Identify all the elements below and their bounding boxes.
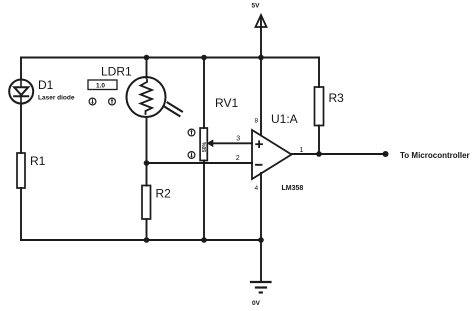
junction: top rail / 5V bbox=[258, 55, 264, 61]
svg-text:2: 2 bbox=[236, 155, 240, 162]
svg-text:R1: R1 bbox=[30, 154, 46, 168]
op-amp minus sign bbox=[256, 164, 262, 166]
svg-text:1.0: 1.0 bbox=[96, 83, 105, 90]
svg-text:3: 3 bbox=[236, 136, 240, 143]
wire: top rail bbox=[21, 57, 319, 59]
svg-text:LM358: LM358 bbox=[282, 185, 304, 192]
terminal: output to microcontroller bbox=[383, 151, 389, 157]
wire: R3 bottom to output node bbox=[318, 126, 320, 155]
wire: op-amp output to terminal bbox=[292, 153, 386, 155]
resistor R2 bbox=[142, 186, 151, 220]
wire: 5V down to op-amp positive supply bbox=[260, 16, 262, 135]
RV1 control: up button bbox=[188, 129, 195, 136]
svg-text:50%: 50% bbox=[202, 141, 208, 152]
resistor R1 bbox=[17, 153, 25, 188]
op-amp U1:A triangle bbox=[252, 130, 292, 179]
junction: divider node LDR1/R2/pin2 bbox=[144, 160, 150, 166]
op-amp plus sign bbox=[256, 141, 262, 147]
svg-text:LDR1: LDR1 bbox=[101, 65, 132, 79]
wire: inverting input (pin 2) from divider node bbox=[147, 162, 253, 164]
wire: left drop from top rail to D1 anode bbox=[20, 58, 22, 79]
svg-text:1: 1 bbox=[300, 147, 304, 154]
ground symbol bbox=[251, 282, 271, 293]
wire: bottom rail bbox=[21, 239, 261, 241]
svg-text:0V: 0V bbox=[252, 300, 261, 307]
wire: ground stem bbox=[260, 240, 262, 281]
junction: RV1 / bottom rail bbox=[201, 237, 207, 243]
wire: wiper to non-inverting input (pin 3) bbox=[212, 142, 253, 144]
LDR1 control: down arrow button bbox=[89, 98, 96, 105]
junction: output / R3 bbox=[316, 151, 322, 157]
junction: ground / bottom rail bbox=[258, 237, 264, 243]
power: 5V arrow symbol bbox=[256, 15, 267, 27]
LDR LDR1 bbox=[127, 77, 183, 117]
svg-text:R2: R2 bbox=[156, 187, 172, 201]
wire: R1 to bottom rail bbox=[20, 188, 22, 240]
wire: RV1 bottom lead to bottom rail bbox=[203, 161, 205, 241]
wire: R2 top lead bbox=[146, 163, 148, 186]
wire: LDR1 top lead bbox=[146, 58, 148, 79]
junction: top rail / RV1 bbox=[201, 55, 207, 61]
svg-text:8: 8 bbox=[255, 118, 259, 125]
svg-text:Laser diode: Laser diode bbox=[38, 95, 75, 102]
junction: top rail / LDR1 bbox=[144, 55, 150, 61]
wire: RV1 top lead from top rail bbox=[203, 58, 205, 129]
wire: op-amp negative supply to bottom rail bbox=[260, 173, 262, 240]
potentiometer RV1 wiper arrow bbox=[208, 140, 213, 146]
junction: R2 / bottom rail bbox=[144, 237, 150, 243]
resistor R3 bbox=[315, 87, 324, 126]
wire: D1 cathode to R1 bbox=[20, 104, 22, 153]
potentiometer RV1 body bbox=[200, 128, 207, 161]
svg-text:U1:A: U1:A bbox=[271, 112, 298, 126]
LDR1 control: up arrow button bbox=[109, 98, 116, 105]
wire: R2 bottom lead bbox=[146, 219, 148, 240]
svg-text:5V: 5V bbox=[252, 3, 261, 10]
svg-text:To Microcontroller: To Microcontroller bbox=[400, 151, 470, 160]
LDR1 value box bbox=[88, 80, 117, 90]
wire: top rail corner down to R3 bbox=[318, 58, 320, 88]
wire: LDR1 bottom lead to divider node bbox=[146, 117, 148, 163]
svg-text:4: 4 bbox=[255, 185, 259, 192]
svg-text:R3: R3 bbox=[329, 91, 345, 105]
laser diode D1 bbox=[9, 80, 33, 105]
RV1 control: down button bbox=[188, 152, 195, 159]
svg-text:D1: D1 bbox=[38, 78, 54, 92]
svg-text:RV1: RV1 bbox=[215, 96, 238, 110]
